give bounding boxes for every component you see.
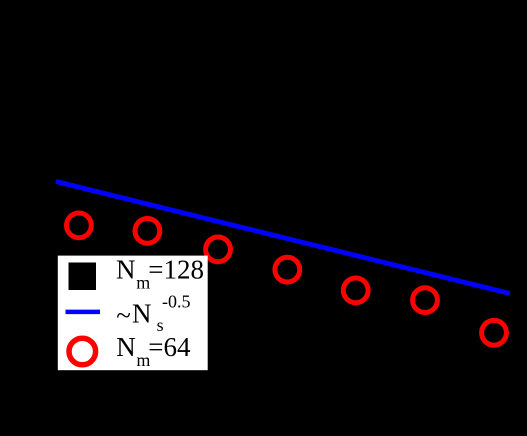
legend marker: blue line segment	[66, 310, 101, 315]
data point circle 1	[67, 213, 92, 238]
data point circle 7	[482, 320, 507, 345]
data point circle 4	[275, 257, 300, 282]
svg-text:=64: =64	[148, 332, 191, 362]
blue trend line ~ Ns^-0.5	[56, 182, 510, 294]
legend marker: red open circle Nm=64	[69, 338, 96, 365]
svg-text:N: N	[116, 332, 136, 362]
data point circle 2	[135, 219, 160, 244]
svg-text:=128: =128	[148, 255, 204, 285]
svg-text:~: ~	[116, 300, 131, 330]
data point circle 6	[413, 288, 438, 313]
legend marker: black square Nm=128	[69, 263, 97, 291]
data point circle 5	[343, 278, 368, 303]
svg-text:N: N	[132, 299, 152, 329]
data point circle 3	[206, 237, 231, 262]
svg-text:-0.5: -0.5	[162, 291, 191, 311]
svg-text:N: N	[116, 255, 136, 285]
legend box	[58, 256, 208, 371]
